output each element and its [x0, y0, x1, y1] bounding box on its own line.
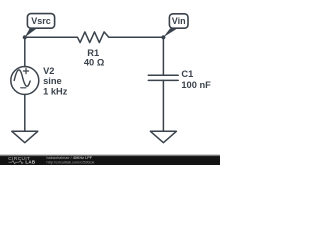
svg-text:1 kHz: 1 kHz [43, 86, 68, 96]
svg-text:Vsrc: Vsrc [31, 16, 51, 26]
svg-text:100 nF: 100 nF [181, 80, 211, 90]
svg-text:Vin: Vin [172, 16, 186, 26]
svg-text:V2: V2 [43, 66, 54, 76]
svg-text:LAB: LAB [25, 159, 35, 164]
svg-text:http://circuitlab.com/c/59tzok: http://circuitlab.com/c/59tzok [47, 160, 95, 164]
svg-text:C1: C1 [181, 69, 193, 79]
svg-text:sine: sine [43, 76, 62, 86]
svg-text:40 Ω: 40 Ω [84, 58, 105, 68]
